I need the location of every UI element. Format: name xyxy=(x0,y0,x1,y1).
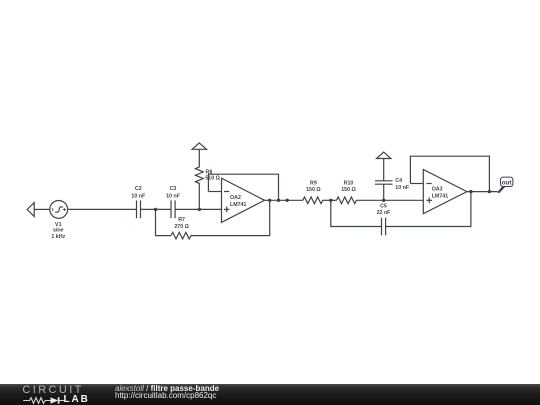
svg-text:R7: R7 xyxy=(178,217,185,223)
node feedback drop junction xyxy=(277,199,280,202)
wire R10 to OA3 + input xyxy=(356,199,423,201)
node R9-R10 junction xyxy=(329,199,332,202)
node wire segment junction xyxy=(286,199,289,202)
footer title text xyxy=(115,385,219,393)
label C4 value xyxy=(395,178,410,191)
resistor R9 xyxy=(303,197,323,204)
svg-text:C5: C5 xyxy=(380,204,387,210)
resistor R10 xyxy=(337,197,357,204)
svg-text:150 Ω: 150 Ω xyxy=(341,187,356,193)
wire OA3 output to out port xyxy=(467,191,498,193)
node OA3 feedback junction xyxy=(488,190,491,193)
label R9 value xyxy=(306,180,321,193)
svg-text:LM741: LM741 xyxy=(230,202,247,208)
svg-text:1 kHz: 1 kHz xyxy=(51,234,65,240)
node C4 junction xyxy=(382,199,385,202)
wire C5 to OA3 output xyxy=(386,192,471,227)
svg-text:sine: sine xyxy=(53,228,64,234)
resistor R7 feedback wire xyxy=(156,209,172,235)
label C2 value xyxy=(131,186,146,200)
capacitor C5 feedback wire xyxy=(331,200,382,226)
label OA3 xyxy=(432,187,449,200)
wire V1 to C2 xyxy=(68,208,137,210)
svg-text:150 Ω: 150 Ω xyxy=(306,187,321,193)
svg-text:C2: C2 xyxy=(135,186,142,192)
label OA2 xyxy=(230,195,247,208)
capacitor C3 xyxy=(171,200,175,218)
resistor R7 xyxy=(171,232,191,239)
label V1 xyxy=(51,222,65,240)
svg-text:10 nF: 10 nF xyxy=(131,193,146,199)
label C5 value xyxy=(377,204,392,216)
CircuitLab logo xyxy=(22,386,83,395)
output port out xyxy=(497,177,513,193)
svg-text:270 Ω: 270 Ω xyxy=(174,224,189,230)
svg-text:OA3: OA3 xyxy=(432,187,443,193)
input port flag xyxy=(27,203,34,217)
op-amp OA2 xyxy=(222,178,265,222)
voltage source V1 xyxy=(50,201,68,219)
node C2-C3 junction xyxy=(154,208,157,211)
svg-text:10 nF: 10 nF xyxy=(166,193,181,199)
wire input to V1 xyxy=(34,208,50,210)
svg-text:510 Ω: 510 Ω xyxy=(205,176,220,182)
wire R7 to OA2 output xyxy=(191,200,270,235)
wire OA2 - input stub xyxy=(208,191,221,193)
svg-text:C4: C4 xyxy=(395,178,402,184)
wire OA3 feedback loop xyxy=(410,156,489,191)
svg-text:10 nF: 10 nF xyxy=(395,185,410,191)
wire C3 to op-amp OA2 + input xyxy=(175,208,221,210)
power supply VCC symbol (top of C4) xyxy=(377,152,391,158)
wire R9 to R10 xyxy=(323,199,337,201)
svg-text:LM741: LM741 xyxy=(432,193,449,199)
node R8 junction xyxy=(198,208,201,211)
svg-text:R10: R10 xyxy=(344,180,354,186)
capacitor C5 xyxy=(382,218,386,236)
power supply VCC symbol (top of R8) xyxy=(192,143,206,149)
label R10 value xyxy=(341,180,356,193)
label C3 value xyxy=(166,186,181,200)
svg-text:OA2: OA2 xyxy=(230,195,241,201)
svg-text:22 nF: 22 nF xyxy=(377,210,392,216)
capacitor C2 xyxy=(137,200,141,218)
svg-text:C3: C3 xyxy=(170,186,177,192)
svg-text:R9: R9 xyxy=(310,180,317,186)
svg-text:out: out xyxy=(502,179,512,186)
node OA2 output junction xyxy=(268,199,271,202)
wire OA2 output to R9 xyxy=(265,199,303,201)
wire OA2 feedback loop xyxy=(208,174,278,200)
wire C2 to C3 xyxy=(141,208,172,210)
label R8 value xyxy=(205,170,220,182)
op-amp OA3 xyxy=(423,170,467,214)
wire OA3 - input stub xyxy=(410,183,423,185)
node OA3 output junction xyxy=(469,190,472,193)
footer bar xyxy=(0,384,540,405)
footer url text xyxy=(115,392,216,400)
label R7 value xyxy=(174,217,189,230)
capacitor C4 xyxy=(375,159,393,201)
resistor R8 xyxy=(195,149,203,209)
